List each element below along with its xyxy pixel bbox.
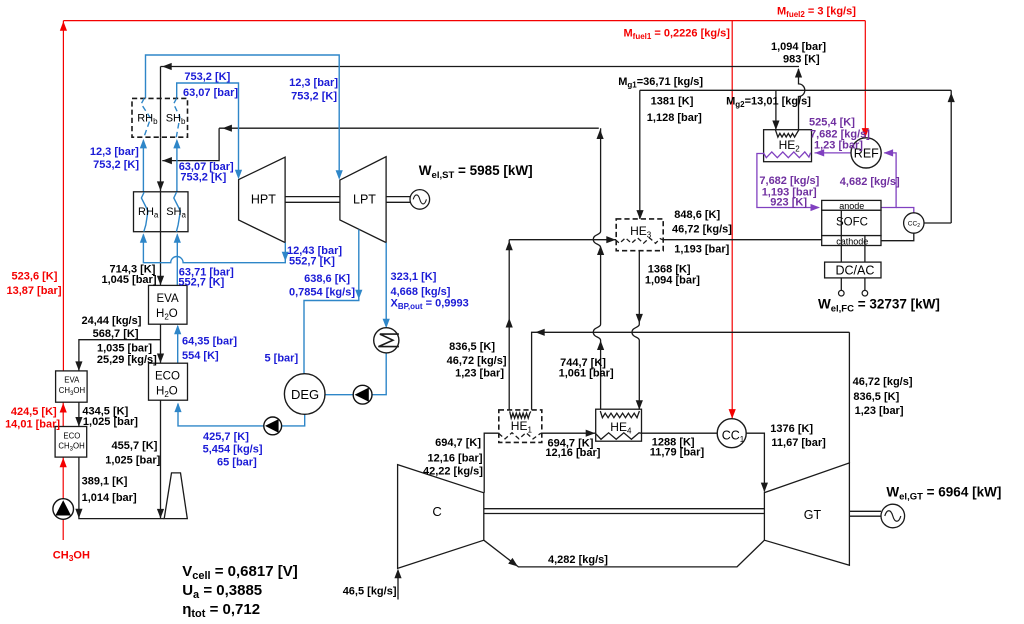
svg-text:424,5 [K]: 424,5 [K]	[11, 406, 57, 418]
wire: cathode air header y=239.7 with hop at 600.6, into HE3 then to cathode	[509, 239, 616, 241]
coil blue in RHa	[141, 192, 148, 232]
arrow black along bypass diagonal	[508, 558, 520, 569]
wire: shaft HPT-LPT (double line)	[285, 196, 340, 198]
heat exchanger HE4	[596, 409, 642, 441]
wire: purple REF to HE2	[815, 152, 852, 154]
arrow red up into ECO CH3OH bottom	[60, 458, 67, 468]
arrow black up at cathode-air header corner	[506, 241, 513, 251]
svg-text:1,025 [bar]: 1,025 [bar]	[105, 454, 160, 466]
wire: blue RHa top to RHb bottom	[142, 141, 144, 192]
steam turbine HPT	[239, 157, 286, 242]
svg-text:0,7854 [kg/s]: 0,7854 [kg/s]	[289, 286, 355, 298]
wire: compressor outlet riser x=484.2	[484, 433, 499, 493]
svg-text:983 [K]: 983 [K]	[783, 54, 820, 66]
arrow blue up into SHa bottom	[174, 233, 181, 243]
fuel cell SOFC stack: anode	[822, 200, 881, 210]
svg-text:836,5 [K]: 836,5 [K]	[853, 391, 899, 403]
arrow black left at step end joining main gas drop	[162, 157, 172, 164]
svg-text:EVA: EVA	[64, 376, 80, 385]
svg-text:65 [bar]: 65 [bar]	[217, 457, 257, 469]
fuel cell SOFC body	[822, 210, 881, 235]
svg-text:552,7 [K]: 552,7 [K]	[289, 256, 335, 268]
arrow black down into HE4 top	[636, 400, 643, 410]
svg-text:DEG: DEG	[291, 387, 319, 402]
wire: M_g2 drop into HE2	[775, 90, 777, 129]
fuel cell SOFC: cathode	[822, 236, 881, 246]
svg-text:425,7 [K]: 425,7 [K]	[203, 431, 249, 443]
svg-text:ECO: ECO	[155, 371, 180, 383]
arrow black up at line B right corner	[948, 93, 955, 103]
svg-text:46,72 [kg/s]: 46,72 [kg/s]	[447, 355, 507, 367]
wire: cathode outlet to CC2	[881, 233, 914, 241]
svg-text:1,23 [bar]: 1,23 [bar]	[855, 405, 904, 417]
generator of GT	[881, 504, 905, 528]
wire: M_g1 drop into HE3	[639, 90, 641, 219]
wire: DC/AC output terminals	[840, 278, 842, 290]
svg-text:C: C	[432, 504, 441, 519]
svg-text:1,094 [bar]: 1,094 [bar]	[645, 275, 700, 287]
arrow blue up into SHb bottom	[173, 139, 180, 149]
svg-text:1,23 [bar]: 1,23 [bar]	[455, 367, 504, 379]
svg-text:523,6 [K]: 523,6 [K]	[12, 270, 58, 282]
arrow blue down into condenser top	[383, 319, 390, 329]
wire: blue LPT extraction to DEG top	[304, 229, 359, 373]
pump P2 feedwater pump	[264, 417, 282, 435]
wire: blue SHb outlet to HPT inlet	[177, 83, 239, 177]
svg-text:1376 [K]: 1376 [K]	[770, 423, 813, 435]
reheater/superheater RHb SHb (dashed bypass box)	[132, 98, 188, 137]
svg-text:1,035 [bar]: 1,035 [bar]	[97, 342, 152, 354]
svg-text:4,668 [kg/s]: 4,668 [kg/s]	[391, 286, 451, 298]
svg-text:11,67 [bar]: 11,67 [bar]	[771, 437, 826, 449]
wire: purple anode outlet to REF and to CC2	[881, 153, 896, 208]
arrow black up into C bottom-left corner	[394, 569, 401, 579]
heat exchanger HE1 (dashed)	[499, 410, 542, 443]
evaporator EVA H2O	[149, 285, 188, 324]
wire: flue gas line A (983K from HE2) y=66.5	[161, 66, 800, 68]
svg-text:EVA: EVA	[157, 293, 179, 305]
svg-text:5 [bar]: 5 [bar]	[265, 353, 299, 365]
terminal circle right	[862, 290, 868, 296]
svg-text:455,7 [K]: 455,7 [K]	[112, 440, 158, 452]
wire: red fuel header M_fuel2 top line	[63, 20, 865, 22]
svg-text:552,7 [K]: 552,7 [K]	[178, 277, 224, 289]
evaporator EVA CH3OH	[56, 371, 88, 402]
wire: blue feedwater from DEG via pump to ECO bottom	[178, 404, 305, 426]
wire: blue ECO water to EVA bottom	[177, 326, 179, 363]
svg-text:HPT: HPT	[251, 193, 276, 207]
deaerator DEG	[284, 374, 325, 415]
steam turbine LPT	[340, 157, 386, 243]
arrow blue up into RHb bottom	[140, 139, 147, 149]
wire: HE4 to CC1 y=433.2	[642, 432, 718, 434]
svg-text:46,5 [kg/s]: 46,5 [kg/s]	[343, 586, 397, 598]
svg-text:7,682 [kg/s]: 7,682 [kg/s]	[759, 175, 819, 187]
arrow black left on line C before step	[222, 125, 232, 132]
svg-text:753,2 [K]: 753,2 [K]	[184, 71, 230, 83]
wire: blue condensate condenser to pump to DEG	[372, 353, 386, 395]
svg-text:525,4 [K]: 525,4 [K]	[809, 116, 855, 128]
heat exchanger HE2	[764, 130, 812, 162]
svg-text:1,23 [bar]: 1,23 [bar]	[814, 139, 863, 151]
wire: blue HPT exhaust down and left to RHa (hop over x=177)	[143, 235, 285, 263]
svg-text:1,094 [bar]: 1,094 [bar]	[771, 41, 826, 53]
svg-text:568,7 [K]: 568,7 [K]	[93, 328, 139, 340]
economizer ECO CH3OH	[55, 427, 87, 458]
wire: flue gas line B (1381K cathode exhaust) y=90.3	[640, 89, 951, 91]
arrow black down into ECO CH3OH top	[75, 417, 82, 427]
wire: bypass air line 4,282 kg/s	[484, 540, 765, 567]
inverter DC/AC	[825, 262, 881, 278]
wire: HE2 outlet riser with hop over line B, into line A	[799, 69, 805, 130]
svg-text:694,7 [K]: 694,7 [K]	[435, 437, 481, 449]
arrow black down into EVA CH3OH top	[75, 361, 82, 371]
wire: HE1 outlet riser x=509.2 to cathode-air header	[508, 240, 510, 410]
wire: air inlet to compressor	[397, 571, 399, 600]
wire: stack feed line y=518.6	[161, 518, 165, 520]
arrow purple left into REF right	[884, 149, 894, 156]
chimney stack	[164, 473, 187, 519]
coil blue in SHa	[174, 192, 181, 232]
svg-text:ECO: ECO	[63, 431, 80, 440]
arrow red down into REF	[862, 128, 869, 138]
coil blue dashed in SHb	[174, 98, 180, 137]
wire: red CH3OH riser (methanol feed up left side)	[62, 21, 64, 371]
svg-text:12,16 [bar]: 12,16 [bar]	[427, 452, 482, 464]
svg-text:753,2 [K]: 753,2 [K]	[180, 172, 226, 184]
svg-text:12,3 [bar]: 12,3 [bar]	[90, 146, 139, 158]
combustor CC2	[904, 213, 924, 233]
reheater/superheater RHa SHa	[134, 192, 189, 232]
arrow black right into HE4 left	[586, 430, 596, 437]
wire: red M_fuel1 drop to CC1	[731, 21, 733, 418]
arrow blue down into LPT	[336, 170, 343, 180]
svg-text:1,193 [bar]: 1,193 [bar]	[674, 243, 729, 255]
reformer REF	[851, 138, 881, 168]
wire: main flue-gas drop x=160.5 through RH/SH, EVA, ECO to stack	[160, 67, 162, 286]
svg-text:1368 [K]: 1368 [K]	[648, 263, 691, 275]
wire: flue branch to methanol heaters y=340.7	[79, 340, 161, 371]
svg-text:63,07 [bar]: 63,07 [bar]	[183, 87, 238, 99]
arrow black down into ECO H2O top	[157, 354, 164, 364]
arrow black right into HE3 left	[606, 236, 616, 243]
coil blue dashed in RHb	[141, 98, 150, 137]
wire: blue RHb outlet to LPT inlet	[146, 55, 340, 178]
svg-text:12,16 [bar]: 12,16 [bar]	[545, 447, 600, 459]
svg-text:1,014 [bar]: 1,014 [bar]	[82, 492, 137, 504]
svg-text:554 [K]: 554 [K]	[182, 350, 219, 362]
arrow black left near corner of exhaust header	[535, 329, 545, 336]
arrow black down above RHa/SHa box	[157, 181, 164, 191]
arrow black up at line C corner	[597, 130, 604, 140]
svg-text:24,44 [kg/s]: 24,44 [kg/s]	[81, 315, 141, 327]
wire: shaft GT to generator (double line)	[849, 510, 881, 512]
svg-text:64,35 [bar]: 64,35 [bar]	[182, 335, 237, 347]
arrow blue up into ECO H2O bottom	[174, 403, 181, 413]
wire: CC2 exhaust riser x=951.2	[950, 90, 952, 223]
generator of steam turbine	[410, 190, 430, 210]
arrow black up into line A	[795, 68, 802, 78]
svg-text:836,5 [K]: 836,5 [K]	[449, 341, 495, 353]
wire: SOFC to DC/AC leads	[840, 211, 842, 263]
arrow black up below y=332 crossing	[597, 341, 604, 351]
wire: CC1 to GT inlet	[746, 433, 764, 491]
svg-text:4,682 [kg/s]: 4,682 [kg/s]	[840, 176, 900, 188]
svg-text:753,2 [K]: 753,2 [K]	[291, 91, 337, 103]
svg-text:14,01 [bar]: 14,01 [bar]	[5, 419, 60, 431]
svg-text:923 [K]: 923 [K]	[770, 196, 807, 208]
svg-text:LPT: LPT	[353, 193, 376, 207]
svg-text:1,061 [bar]: 1,061 [bar]	[559, 368, 614, 380]
svg-text:DC/AC: DC/AC	[836, 264, 875, 278]
svg-text:1,045 [bar]: 1,045 [bar]	[101, 274, 156, 286]
svg-text:1381 [K]: 1381 [K]	[651, 96, 694, 108]
wire: HE3 to HE4 gas drop x=640.3	[632, 251, 639, 411]
svg-text:389,1 [K]: 389,1 [K]	[82, 476, 128, 488]
arrow purple right into anode left	[811, 204, 821, 211]
svg-text:4,282 [kg/s]: 4,282 [kg/s]	[548, 554, 608, 566]
compressor C	[398, 465, 484, 569]
svg-text:25,29 [kg/s]: 25,29 [kg/s]	[97, 354, 157, 366]
svg-text:1,128 [bar]: 1,128 [bar]	[647, 112, 702, 124]
wire: blue SHa top to SHb bottom	[176, 141, 178, 192]
terminal circle left	[839, 290, 845, 296]
heat exchanger HE3 (dashed)	[616, 219, 663, 251]
wire: blue EVA steam to SHa bottom	[176, 235, 178, 286]
svg-text:5,454 [kg/s]: 5,454 [kg/s]	[203, 444, 263, 456]
economizer ECO H2O	[149, 363, 188, 400]
arrow black down into GT top-left corner	[761, 483, 768, 493]
arrow black left at line A left end	[162, 63, 172, 70]
arrow black up below y=239.7 crossing	[597, 246, 604, 256]
arrow blue down into HPT	[235, 170, 242, 180]
wire: shaft LPT to generator (double line)	[386, 196, 410, 198]
arrow blue down at HPT exhaust corner	[282, 252, 289, 262]
svg-text:323,1 [K]: 323,1 [K]	[391, 271, 437, 283]
svg-text:46,72 [kg/s]: 46,72 [kg/s]	[672, 224, 732, 236]
arrow blue up into RHa bottom	[140, 233, 147, 243]
gas turbine GT	[764, 463, 849, 565]
wire: CC2 to riser	[924, 222, 951, 224]
svg-text:46,72 [kg/s]: 46,72 [kg/s]	[853, 376, 913, 388]
combustor CC1	[717, 419, 746, 448]
wire: red M_fuel2 drop to REF	[864, 21, 866, 137]
pump P3 CH3OH feed pump	[53, 499, 74, 520]
arrow black up mid HE1 riser	[506, 318, 513, 328]
arrow black down at stack inlet	[157, 509, 164, 519]
wire: purple HE2 to anode inlet	[757, 154, 819, 208]
svg-text:GT: GT	[804, 508, 822, 522]
arrow red down into CC1	[729, 409, 736, 419]
wire: GT exhaust header y=332.3 with hops at 600.6 and 640.3	[532, 332, 850, 410]
pump P1 condensate pump	[353, 385, 372, 404]
condenser (sigma symbol)	[374, 328, 399, 353]
svg-text:638,6 [K]: 638,6 [K]	[304, 273, 350, 285]
arrow blue down at extraction corner	[355, 290, 362, 300]
svg-text:13,87 [bar]: 13,87 [bar]	[6, 285, 61, 297]
svg-text:753,2 [K]: 753,2 [K]	[93, 159, 139, 171]
wire: GT exhaust riser x=849.4	[848, 332, 850, 463]
arrow purple left into HE2 right	[815, 149, 825, 156]
arrow black down into EVA H2O top	[157, 276, 164, 286]
svg-text:42,22 [kg/s]: 42,22 [kg/s]	[423, 466, 483, 478]
arrow blue up into EVA H2O bottom	[174, 325, 181, 335]
arrow black down at flue corner below ECO CH3OH	[75, 509, 82, 519]
svg-text:848,6 [K]: 848,6 [K]	[674, 209, 720, 221]
arrow red up into EVA CH3OH bottom	[60, 403, 67, 413]
wire: line C (744K gas from HE4) y=128 with step down to main drop	[219, 127, 599, 129]
arrow black down above y=332 hop	[636, 314, 643, 324]
wire: blue LPT exhaust to condenser	[385, 243, 387, 327]
arrow red up at top-left corner	[60, 21, 67, 31]
wire: shaft C to GT (double line)	[484, 508, 765, 510]
arrow black down into HE3 top	[636, 210, 643, 220]
wire: HE4 outlet riser x=600.6 up to line C	[593, 128, 600, 410]
svg-text:12,3 [bar]: 12,3 [bar]	[289, 77, 338, 89]
svg-text:1,025 [bar]: 1,025 [bar]	[83, 416, 138, 428]
svg-text:11,79 [bar]: 11,79 [bar]	[650, 446, 705, 458]
arrow black down into HE2 top	[772, 121, 779, 131]
wire: hot path HE1 to HE4 y=433.2	[542, 432, 596, 434]
